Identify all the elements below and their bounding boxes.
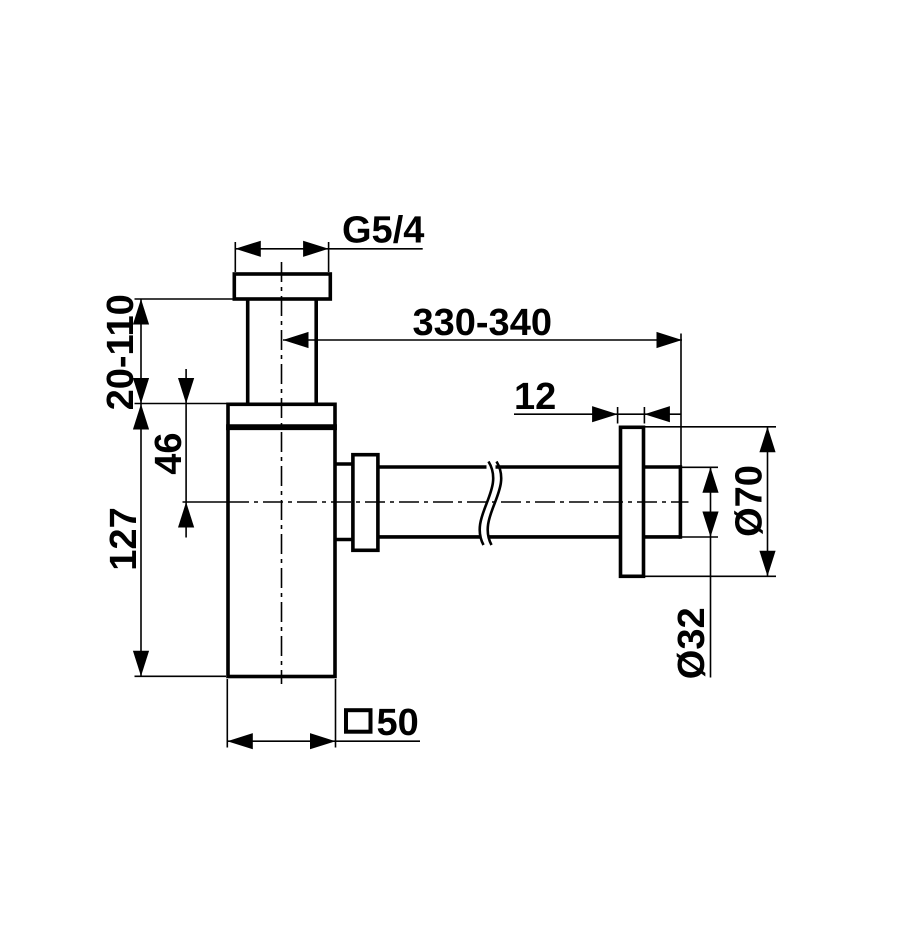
330-340 right extension line <box>680 334 682 467</box>
20-110 top extension line <box>135 298 234 300</box>
pipe end cap line <box>679 465 683 539</box>
svg-text:Ø70: Ø70 <box>729 465 771 537</box>
wall rosette flange <box>621 427 644 576</box>
thick seam band under body flange <box>226 424 337 430</box>
outlet stub between body and nut <box>335 462 353 466</box>
127 bottom extension line <box>135 675 227 677</box>
20-110 arrowheads <box>133 299 149 325</box>
pipe break line 1 <box>480 462 494 546</box>
trap body (cup with upper flange) <box>228 404 335 676</box>
svg-text:Ø32: Ø32 <box>671 607 713 679</box>
solid extension of pipe centerline to 46-dim <box>183 501 230 503</box>
diameter 32 dimension line <box>710 467 712 537</box>
diameter 70 extension lines <box>644 426 776 428</box>
diameter 70 arrowheads <box>759 427 775 453</box>
330-340 dimension line <box>283 339 682 341</box>
pipe stub through rosette <box>644 465 681 469</box>
svg-text:127: 127 <box>103 507 145 570</box>
46 dimension line <box>185 369 187 538</box>
compression nut on outlet <box>353 455 378 551</box>
neck tube (adjustable riser) <box>246 299 250 404</box>
horizontal outlet pipe left section <box>378 465 487 469</box>
G5/4 dimension line <box>235 248 422 250</box>
diameter 70 dimension line <box>767 427 769 577</box>
square 50 extension lines <box>226 679 228 748</box>
127 arrowheads <box>133 404 149 430</box>
diameter 32 extension lines <box>681 466 719 468</box>
square 50 arrowheads <box>227 733 253 749</box>
svg-text:330-340: 330-340 <box>413 302 552 344</box>
vertical centerline of body <box>281 262 283 684</box>
svg-text:G5/4: G5/4 <box>342 210 424 252</box>
shared extension line at body flange top <box>135 403 228 405</box>
12 dimension line <box>514 413 681 415</box>
top flange (G5/4 union nut) <box>234 274 330 299</box>
svg-text:20-110: 20-110 <box>100 294 142 410</box>
20-110 dimension line <box>140 299 142 404</box>
square symbol of 50 label <box>346 710 371 732</box>
pipe break line 2 <box>488 462 502 546</box>
127 dimension line <box>140 404 142 677</box>
330-340 arrowheads <box>283 332 309 348</box>
horizontal centerline of pipe <box>229 501 689 503</box>
46 arrowheads (outside pointing in) <box>178 378 194 404</box>
svg-text:12: 12 <box>514 376 556 418</box>
diameter 32 leader tail <box>710 537 712 678</box>
12 extension lines <box>617 407 619 424</box>
G5/4 arrowheads <box>235 241 260 257</box>
diameter 32 arrowheads <box>702 467 718 493</box>
G5/4 extension line left <box>234 242 236 272</box>
12 arrowheads (outside pointing in) <box>592 406 618 422</box>
svg-text:46: 46 <box>148 432 190 474</box>
G5/4 extension line right <box>328 242 330 272</box>
square 50 dimension line <box>227 740 420 742</box>
horizontal outlet pipe right section <box>496 465 621 469</box>
svg-text:50: 50 <box>377 702 419 744</box>
